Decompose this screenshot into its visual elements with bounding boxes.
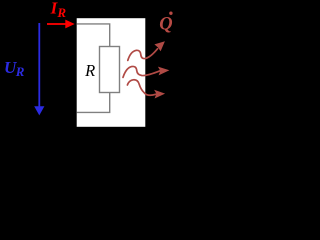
label U_R <box>4 58 25 79</box>
svg-text:R: R <box>15 64 25 79</box>
voltage arrow UR <box>34 23 44 115</box>
heat label Q-dot <box>159 12 172 35</box>
label I_R <box>50 0 67 20</box>
heat wavy arrow 3 (bottom) <box>127 80 156 96</box>
heat wavy arrow 2 (middle) <box>123 66 160 77</box>
resistor R <box>100 47 120 93</box>
svg-text:R: R <box>84 61 95 80</box>
system boundary box <box>76 18 146 128</box>
heat wavy arrow 1 (top) <box>128 49 158 61</box>
wire (top: from left boundary to resistor top) <box>77 24 110 47</box>
svg-text:Q: Q <box>159 15 172 35</box>
svg-text:R: R <box>56 5 66 20</box>
current arrow IR <box>47 20 75 29</box>
wire (bottom: from resistor bottom to left boundary) <box>77 93 110 113</box>
